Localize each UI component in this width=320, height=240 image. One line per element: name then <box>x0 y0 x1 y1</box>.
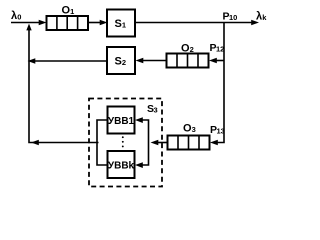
left feedback line with up arrow <box>26 24 98 146</box>
dots between UVV blocks <box>122 136 124 147</box>
queue O3 <box>168 136 210 150</box>
wire input lambda0 to O1 <box>11 20 47 26</box>
svg-text:λ: λ <box>11 10 17 22</box>
block S2 <box>107 47 135 74</box>
label S3 <box>147 103 158 115</box>
svg-text:S2: S2 <box>115 56 127 68</box>
UVV right distribution wire <box>135 117 149 168</box>
wire P10 branch down to O3 <box>210 23 224 146</box>
svg-text:12: 12 <box>216 45 224 54</box>
label lambdak <box>256 11 267 23</box>
svg-text:O1: O1 <box>62 5 75 17</box>
UVV left collection wire <box>97 120 108 165</box>
svg-text:УВВk: УВВk <box>108 160 135 171</box>
svg-text:S1: S1 <box>115 18 127 30</box>
queue O1 <box>47 16 89 30</box>
wire O3 to distribution line <box>151 140 168 146</box>
block S1 <box>107 10 135 37</box>
block UVV1 <box>108 107 135 134</box>
wire O2 to S2 <box>136 58 167 64</box>
svg-text:13: 13 <box>217 127 225 136</box>
svg-text:0: 0 <box>17 13 21 22</box>
wire O1 to S1 <box>88 20 108 26</box>
svg-text:3: 3 <box>154 106 158 115</box>
wire S2 to left feedback line <box>28 58 108 64</box>
queue O2 <box>167 54 209 68</box>
label P12 <box>210 42 225 54</box>
label P13 <box>210 124 225 136</box>
wire S1 to lambdak output <box>135 20 259 26</box>
dashed box S3 <box>89 99 162 187</box>
svg-text:УВВ1: УВВ1 <box>108 116 135 127</box>
svg-text:O3: O3 <box>183 123 196 135</box>
wire P12 branch to O2 <box>209 58 224 64</box>
label lambda0 <box>11 10 21 22</box>
svg-text:10: 10 <box>229 13 237 22</box>
svg-text:λ: λ <box>256 11 262 23</box>
label P10 <box>223 11 238 23</box>
block UVVk <box>108 151 135 178</box>
